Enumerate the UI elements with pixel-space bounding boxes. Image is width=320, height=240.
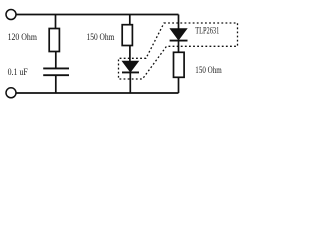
wire R3 bottom lead — [178, 77, 180, 93]
diode D1 LED lower (triangle) — [122, 61, 138, 72]
wire C1 bottom lead — [55, 75, 57, 93]
wire R1 to C1 — [55, 52, 57, 69]
wire R2 top lead — [129, 15, 131, 25]
wire D2 top lead — [178, 15, 180, 29]
wire D1 bottom lead — [129, 72, 131, 93]
diode D2 cathode bar — [170, 40, 188, 42]
resistor R3 150 Ohm — [174, 52, 185, 77]
svg-text:150 Ohm: 150 Ohm — [195, 66, 222, 76]
wire R1 top lead — [55, 15, 57, 29]
diode D2 LED upper (triangle) — [170, 29, 187, 40]
resistor R1 120 Ohm — [49, 29, 59, 52]
wire R2 to D1 — [129, 46, 131, 62]
wire top rail — [16, 14, 179, 16]
svg-text:120 Ohm: 120 Ohm — [8, 33, 38, 43]
wire bottom rail — [16, 92, 179, 94]
svg-text:TLP2631: TLP2631 — [195, 27, 219, 37]
optocoupler U1 package dashed outline — [119, 23, 238, 79]
wire D2 to R3 — [178, 41, 180, 53]
capacitor C1 0.1 uF plate top — [43, 67, 69, 69]
terminal top-left — [6, 10, 16, 20]
capacitor C1 plate bottom — [43, 74, 69, 76]
terminal bottom-left — [6, 88, 16, 98]
diode D1 cathode bar — [122, 71, 139, 73]
svg-text:150 Ohm: 150 Ohm — [87, 33, 115, 43]
resistor R2 150 Ohm — [122, 25, 132, 46]
svg-text:0.1 uF: 0.1 uF — [8, 67, 28, 77]
